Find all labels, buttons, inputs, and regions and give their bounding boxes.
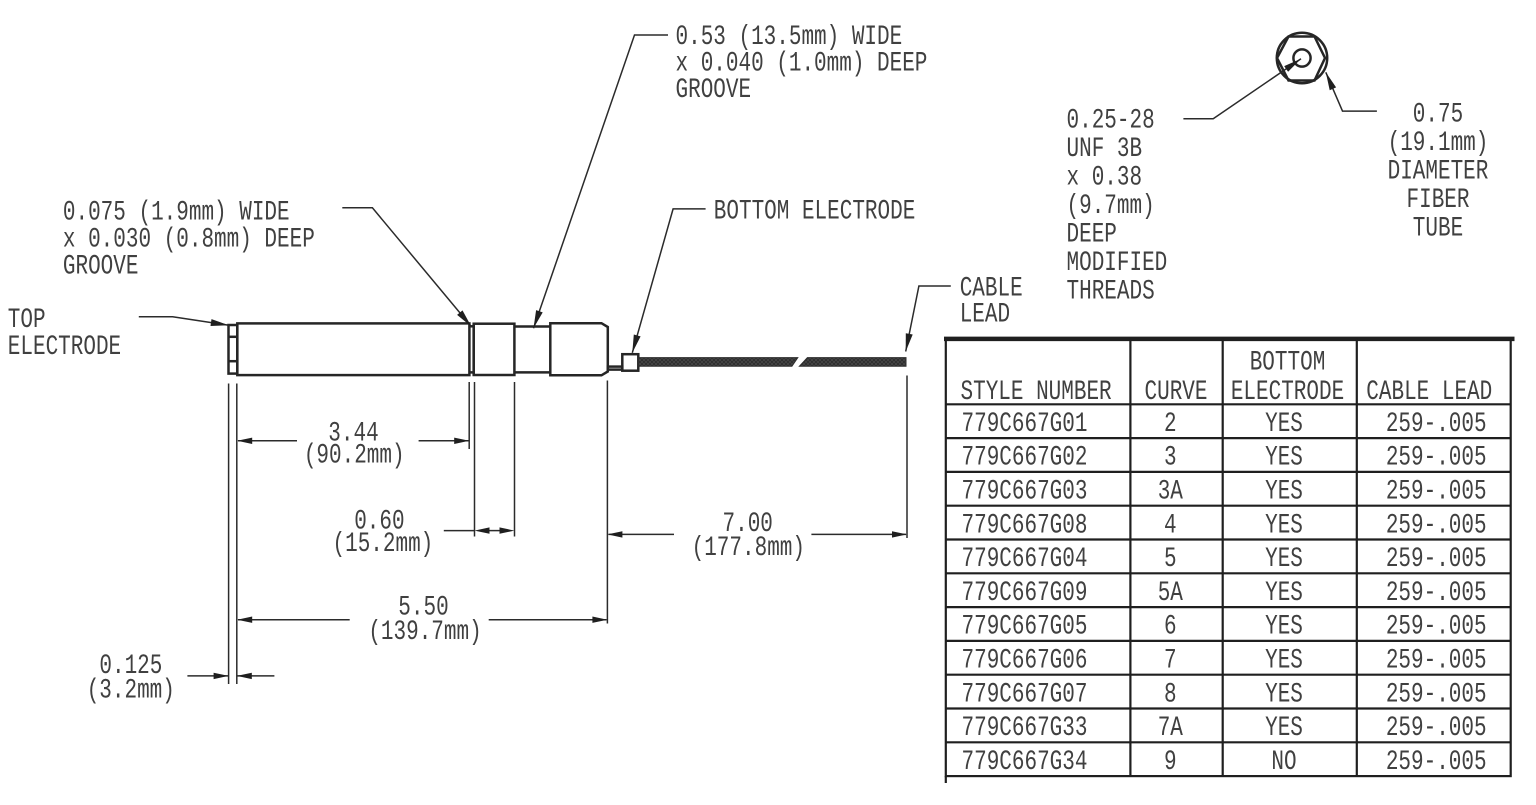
svg-text:YES: YES (1265, 476, 1303, 508)
bottom electrode square (622, 354, 638, 371)
svg-text:259-.005: 259-.005 (1386, 408, 1487, 440)
svg-text:259-.005: 259-.005 (1386, 577, 1487, 609)
svg-text:YES: YES (1265, 442, 1303, 474)
svg-text:7A: 7A (1158, 712, 1183, 744)
top electrode cap (229, 325, 238, 374)
extension line 0.60 left (474, 382, 476, 537)
svg-text:GROOVE: GROOVE (63, 251, 139, 283)
cable braid right piece (799, 358, 906, 367)
dimension 5.50 (139.7mm) (237, 592, 607, 648)
table row 779C667G34 (962, 746, 1487, 778)
table row 779C667G01 (962, 408, 1487, 440)
svg-text:259-.005: 259-.005 (1386, 746, 1487, 778)
svg-text:779C667G33: 779C667G33 (962, 712, 1088, 744)
svg-text:(139.7mm): (139.7mm) (368, 616, 481, 648)
svg-text:3A: 3A (1158, 476, 1183, 508)
label: 0.53 wide groove text (676, 21, 928, 106)
extension line body right end (606, 381, 608, 624)
narrow 0.53 groove section (514, 327, 550, 373)
svg-text:5: 5 (1164, 543, 1177, 575)
svg-text:779C667G02: 779C667G02 (962, 442, 1088, 474)
label: fiber tube diameter text (1388, 99, 1489, 245)
svg-text:779C667G08: 779C667G08 (962, 510, 1088, 542)
svg-text:BOTTOM ELECTRODE: BOTTOM ELECTRODE (714, 196, 916, 228)
svg-text:0.25-28: 0.25-28 (1067, 105, 1155, 137)
svg-text:LEAD: LEAD (960, 299, 1010, 331)
right body section with chamfered end (550, 323, 608, 375)
table row lines (946, 404, 1511, 742)
svg-text:(15.2mm): (15.2mm) (333, 528, 434, 560)
first collar section (0.60) (474, 324, 515, 375)
table thick top border (944, 337, 1515, 342)
table row 779C667G02 (962, 442, 1487, 474)
svg-text:(19.1mm): (19.1mm) (1388, 127, 1489, 159)
svg-text:779C667G04: 779C667G04 (962, 543, 1088, 575)
svg-text:YES: YES (1265, 577, 1303, 609)
extension line 0.60 right (514, 382, 516, 537)
dimension 7.00 (177.8mm) (607, 508, 907, 564)
svg-text:CURVE: CURVE (1145, 376, 1208, 408)
dimension 0.60 (15.2mm) (333, 506, 515, 560)
svg-text:UNF 3B: UNF 3B (1067, 133, 1143, 165)
svg-text:779C667G07: 779C667G07 (962, 679, 1088, 711)
svg-text:6: 6 (1164, 611, 1177, 643)
leader to top electrode (139, 317, 229, 326)
svg-text:259-.005: 259-.005 (1386, 543, 1487, 575)
svg-text:x 0.38: x 0.38 (1067, 162, 1143, 194)
svg-text:9: 9 (1164, 746, 1177, 778)
table header text (961, 347, 1493, 408)
svg-text:3: 3 (1164, 442, 1177, 474)
svg-text:779C667G03: 779C667G03 (962, 476, 1088, 508)
leader to fiber tube (1326, 72, 1377, 111)
svg-text:BOTTOM: BOTTOM (1250, 347, 1326, 379)
table row 779C667G05 (962, 611, 1487, 643)
label: cable lead text (960, 273, 1023, 331)
svg-text:259-.005: 259-.005 (1386, 476, 1487, 508)
svg-text:5A: 5A (1158, 577, 1183, 609)
svg-text:259-.005: 259-.005 (1386, 712, 1487, 744)
svg-text:YES: YES (1265, 611, 1303, 643)
cable braid left piece (638, 358, 798, 367)
table column lines (1130, 339, 1356, 776)
svg-text:259-.005: 259-.005 (1386, 442, 1487, 474)
leader to cable lead (906, 286, 951, 352)
svg-text:YES: YES (1265, 408, 1303, 440)
svg-text:DIAMETER: DIAMETER (1388, 156, 1489, 188)
svg-text:TUBE: TUBE (1413, 213, 1463, 245)
svg-text:STYLE NUMBER: STYLE NUMBER (961, 376, 1112, 408)
svg-text:YES: YES (1265, 679, 1303, 711)
label: top electrode text (8, 304, 121, 363)
svg-text:0.75: 0.75 (1413, 99, 1463, 131)
svg-text:GROOVE: GROOVE (676, 74, 752, 106)
svg-text:DEEP: DEEP (1067, 219, 1117, 251)
svg-text:779C667G01: 779C667G01 (962, 408, 1088, 440)
extension line 3.44 right (468, 382, 470, 449)
table row 779C667G04 (962, 543, 1487, 575)
dimension 3.44 (90.2mm) (237, 418, 469, 472)
svg-text:2: 2 (1164, 408, 1177, 440)
label: UNF threads text (1067, 105, 1168, 308)
fiber tube outer circle (1277, 33, 1327, 83)
svg-text:779C667G05: 779C667G05 (962, 611, 1088, 643)
svg-text:YES: YES (1265, 510, 1303, 542)
main body tube (237, 323, 469, 375)
svg-text:YES: YES (1265, 543, 1303, 575)
leader to 0.53 groove (534, 35, 669, 328)
leader to bottom electrode (632, 209, 705, 353)
extension line left cap right edge (236, 384, 238, 685)
svg-text:NO: NO (1271, 746, 1296, 778)
svg-text:4: 4 (1164, 510, 1177, 542)
table outer border (946, 339, 1511, 776)
leader to threaded hole (1183, 59, 1301, 119)
table row 779C667G33 (962, 712, 1487, 744)
table row 779C667G08 (962, 510, 1487, 542)
svg-text:779C667G34: 779C667G34 (962, 746, 1088, 778)
table row 779C667G09 (962, 577, 1487, 609)
svg-text:259-.005: 259-.005 (1386, 645, 1487, 677)
svg-text:259-.005: 259-.005 (1386, 611, 1487, 643)
svg-text:(177.8mm): (177.8mm) (692, 532, 805, 564)
svg-text:THREADS: THREADS (1067, 276, 1155, 308)
table row 779C667G07 (962, 679, 1487, 711)
hex nut (1277, 37, 1325, 81)
svg-text:(3.2mm): (3.2mm) (87, 675, 175, 707)
svg-text:CABLE LEAD: CABLE LEAD (1366, 376, 1492, 408)
extension line cable end (906, 376, 908, 539)
svg-text:(9.7mm): (9.7mm) (1067, 190, 1155, 222)
svg-text:7: 7 (1164, 645, 1177, 677)
threaded hole inner circle (1293, 49, 1310, 66)
table left border tick below (945, 776, 947, 783)
svg-text:ELECTRODE: ELECTRODE (1231, 376, 1344, 408)
svg-text:MODIFIED: MODIFIED (1067, 247, 1168, 279)
svg-text:YES: YES (1265, 712, 1303, 744)
0.075 groove at end of main body (469, 324, 473, 375)
table row 779C667G06 (962, 645, 1487, 677)
svg-text:779C667G06: 779C667G06 (962, 645, 1088, 677)
extension line left cap left edge (228, 384, 230, 685)
svg-text:8: 8 (1164, 679, 1177, 711)
connector stub pin (608, 367, 623, 370)
table row 779C667G03 (962, 476, 1487, 508)
leader to 0.075 groove (342, 208, 471, 327)
svg-text:FIBER: FIBER (1407, 184, 1470, 216)
label: 0.075 wide groove text (63, 197, 315, 283)
svg-text:ELECTRODE: ELECTRODE (8, 331, 121, 363)
svg-text:259-.005: 259-.005 (1386, 510, 1487, 542)
dimension 0.125 (3.2mm) (87, 650, 275, 706)
svg-text:259-.005: 259-.005 (1386, 679, 1487, 711)
svg-text:779C667G09: 779C667G09 (962, 577, 1088, 609)
svg-text:YES: YES (1265, 645, 1303, 677)
svg-text:(90.2mm): (90.2mm) (304, 440, 405, 472)
